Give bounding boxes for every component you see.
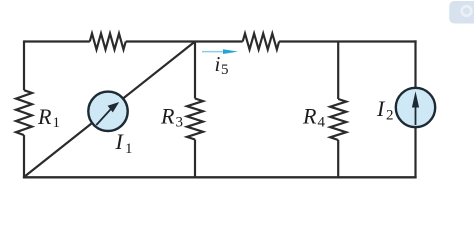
wire diagonal branch with ammeter [24,42,195,178]
wire left side (bottom segment) [23,135,25,178]
wire top side (middle segment through node B) [126,40,243,42]
svg-text:1: 1 [125,141,133,157]
resistor R1 [16,90,32,135]
svg-text:I: I [115,129,125,154]
wire R4 branch (top) [337,42,339,100]
wire right side [414,40,416,178]
wire top side (left segment) [24,40,90,42]
svg-text:1: 1 [53,115,61,131]
svg-text:2: 2 [386,108,394,124]
ammeter I1 needle arrow [96,102,119,125]
current arrow i5 [202,49,238,54]
svg-text:5: 5 [221,62,229,78]
svg-text:3: 3 [176,115,184,131]
wire R3 branch (top) [194,42,196,99]
ammeter I1 (circle) [88,92,127,131]
current source I2 (circle) [396,88,435,127]
svg-text:i: i [215,52,221,76]
resistor top-right (carries i5) [243,34,279,50]
resistor R3 [187,99,203,140]
resistor R4 [330,99,346,140]
svg-text:R: R [160,104,175,129]
resistor top-left (between node A and node B) [90,34,126,50]
current source I2 arrow [412,91,419,125]
wire bottom side [23,176,417,178]
svg-text:I: I [376,96,386,121]
wire R3 branch (bottom) [194,140,196,179]
svg-text:4: 4 [318,115,326,131]
wire top side (right segment) [279,40,417,42]
wire left side (top segment) [23,40,25,90]
wire R4 branch (bottom) [337,140,339,178]
faint browser button top-right [449,1,474,24]
svg-text:R: R [302,104,317,129]
svg-text:R: R [37,104,52,129]
